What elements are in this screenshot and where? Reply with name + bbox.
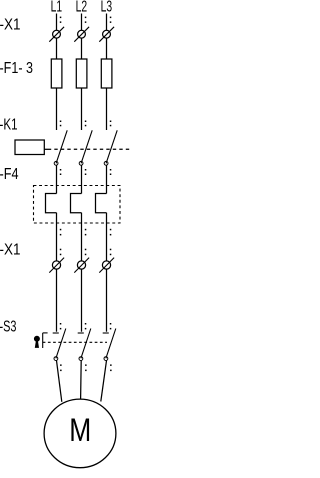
- connection point dots below -K1 contact phase 1: [60, 169, 62, 171]
- wire from terminal row 2 to switch -S3, phase 2: [81, 269, 83, 332]
- fuse -F3 (of group -F1-3): [101, 59, 112, 88]
- svg-text:M: M: [69, 412, 91, 448]
- motor M circle: [44, 399, 116, 468]
- terminal -X1 top row, phase 2 (circle with slash): [78, 30, 86, 38]
- connection point dots below -S3 phase 1: [60, 364, 62, 366]
- switch -S3 contact phase 2: fixed contact tick: [78, 332, 84, 334]
- wire L2 from net label to terminal -X1: [81, 14, 83, 31]
- connection point dots above terminal -X1 phase 3: [110, 17, 112, 19]
- actuator -S3: latch bracket top arm: [43, 332, 48, 334]
- thermal element of -F4, phase 2: [71, 194, 82, 213]
- wire from contact into overload -F4, phase 1: [56, 165, 58, 193]
- actuator -S3: latch bracket vertical: [42, 333, 44, 348]
- wire from -S3 to motor, phase 3: [101, 361, 107, 402]
- connection point dots below -K1 contact phase 3: [110, 169, 112, 171]
- wire from terminal to fuse, phase 3: [106, 38, 108, 59]
- coil -K1: [15, 140, 44, 155]
- switch -S3 contact pivot circle phase 3: [104, 357, 108, 361]
- terminal -X1 second row, phase 2 (circle with slash): [77, 261, 85, 269]
- wire from -F4 to terminal row 2, phase 1: [56, 213, 58, 262]
- contactor -K1 main contact phase 1: blade: [56, 130, 67, 163]
- thermal element of -F4, phase 1: [46, 194, 57, 213]
- connection point dots above terminal -X1 phase 1: [60, 17, 62, 19]
- mechanical link dashed line from -S3 actuator to contacts: [43, 341, 107, 343]
- switch -S3 contact phase 3: fixed contact tick: [103, 332, 109, 334]
- wire from -F4 to terminal row 2, phase 3: [106, 213, 108, 262]
- connection point dots above -K1 contact phase 2: [85, 121, 87, 123]
- svg-text:-X1: -X1: [0, 241, 21, 258]
- wire from -S3 to motor, phase 2: [80, 361, 83, 399]
- connection point dots above terminal -X1 phase 2: [85, 17, 87, 19]
- connection point dots below -K1 contact phase 2: [85, 169, 87, 171]
- wire from fuse to contactor contact, phase 3: [106, 88, 108, 130]
- wire from terminal row 2 to switch -S3, phase 1: [56, 269, 58, 332]
- terminal -X1 top row, phase 1 (circle with slash): [53, 30, 61, 38]
- connection point dots above terminal row 2 phase 2: [85, 249, 87, 251]
- terminal -X1 second row, phase 1 (circle with slash): [52, 261, 60, 269]
- connection point dots below -F4 phase 2: [85, 229, 87, 231]
- wire from terminal to fuse, phase 1: [56, 38, 58, 59]
- switch -S3 contact pivot circle phase 2: [79, 357, 83, 361]
- svg-text:-S3: -S3: [0, 319, 17, 336]
- svg-text:-K1: -K1: [0, 116, 18, 133]
- connection point dots below -F4 phase 3: [110, 229, 112, 231]
- wire from terminal row 2 to switch -S3, phase 3: [106, 269, 108, 332]
- svg-text:L3: L3: [101, 0, 113, 16]
- wire from contact into overload -F4, phase 2: [81, 165, 83, 193]
- wire from contact into overload -F4, phase 3: [106, 165, 108, 193]
- connection point dots above -K1 contact phase 3: [110, 121, 112, 123]
- wire L1 from net label to terminal -X1: [56, 14, 58, 31]
- switch -S3 contact phase 2: blade: [81, 329, 91, 359]
- wire from terminal to fuse, phase 2: [81, 38, 83, 59]
- fuse -F2 (of group -F1-3): [76, 59, 87, 88]
- contactor -K1 main contact phase 3: blade: [106, 130, 117, 163]
- switch -S3 contact phase 3: blade: [106, 329, 116, 359]
- svg-text:-F4: -F4: [0, 166, 19, 183]
- connection point dots above -S3 contact phase 3: [110, 323, 112, 325]
- svg-text:-F1- 3: -F1- 3: [0, 60, 33, 77]
- switch -S3 contact phase 1: blade: [56, 329, 66, 359]
- svg-text:L2: L2: [76, 0, 88, 16]
- wire from -S3 to motor, phase 1: [57, 361, 62, 402]
- wire L3 from net label to terminal -X1: [106, 14, 108, 31]
- wire from fuse to contactor contact, phase 1: [56, 88, 58, 130]
- thermal element of -F4, phase 3: [96, 194, 107, 213]
- fuse -F1 (of group -F1-3): [51, 59, 62, 88]
- wire from fuse to contactor contact, phase 2: [81, 88, 83, 130]
- overload relay -F4 dashed outline box: [34, 186, 121, 224]
- connection point dots below -F4 phase 1: [60, 229, 62, 231]
- svg-text:L1: L1: [51, 0, 63, 16]
- contactor -K1 contact pivot circle phase 3: [104, 161, 108, 165]
- connection point dots above terminal row 2 phase 3: [110, 249, 112, 251]
- contactor -K1 contact pivot circle phase 1: [54, 161, 58, 165]
- switch -S3 contact phase 1: fixed contact tick: [53, 332, 59, 334]
- svg-text:-X1: -X1: [0, 16, 21, 33]
- switch -S3 contact pivot circle phase 1: [54, 357, 58, 361]
- terminal -X1 top row, phase 3 (circle with slash): [103, 30, 111, 38]
- connection point dots above -K1 contact phase 1: [60, 121, 62, 123]
- connection point dots above -S3 contact phase 2: [85, 323, 87, 325]
- mechanical link dashed line from -K1 coil to contacts: [44, 148, 51, 150]
- actuator -S3: mushroom head: [35, 336, 40, 341]
- connection point dots below -S3 phase 2: [85, 364, 87, 366]
- connection point dots above -S3 contact phase 1: [60, 323, 62, 325]
- wire from -F4 to terminal row 2, phase 2: [81, 213, 83, 262]
- actuator -S3: stem: [35, 341, 39, 348]
- terminal -X1 second row, phase 3 (circle with slash): [102, 261, 110, 269]
- contactor -K1 main contact phase 2: blade: [81, 130, 92, 163]
- connection point dots above terminal row 2 phase 1: [60, 249, 62, 251]
- connection point dots below -S3 phase 3: [110, 364, 112, 366]
- contactor -K1 contact pivot circle phase 2: [79, 161, 83, 165]
